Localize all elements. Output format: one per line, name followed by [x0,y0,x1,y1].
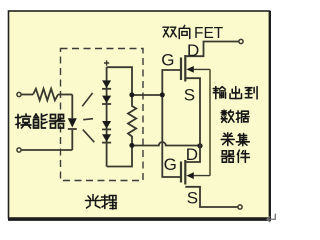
photodiode PD2 [102,96,111,104]
svg-text:D: D [187,41,199,60]
label 光耦 char 光 [86,195,101,209]
terminal input top [17,92,21,96]
label 双向 char 向 [179,25,190,38]
transistor Q1 gate bar [180,58,182,81]
transistor Q1 channel bar [184,55,186,82]
resistor R1 (series input) [33,89,58,101]
terminal output top [239,39,243,43]
node junction: resistor top [129,92,134,97]
label 输出到 char 到 [245,87,257,99]
photodiode PD1 [102,80,111,88]
light ray 3 [83,130,95,143]
label 换能器 char 能 [34,114,48,128]
wire Q1 body [194,68,210,70]
transistor Q2 gate bar [180,162,182,183]
svg-text:FET: FET [194,25,224,42]
resistor R2 (gate bleed) [128,95,136,146]
node junction: common source/drain [197,143,202,148]
label 换能器 char 换 [16,114,32,128]
transistor Q2 channel bar [184,160,186,185]
border accent right [269,11,271,220]
wire gate bus [162,70,181,177]
svg-text:G: G [164,155,177,174]
optocoupler dashed box U1 [61,49,144,181]
label 数据 char 据 [236,111,249,122]
svg-text:S: S [187,189,198,208]
label 器件 char 件 [237,150,249,162]
panel background [9,11,270,218]
terminal input bottom [17,148,21,152]
wire [58,94,72,96]
label 换能器 char 器 [50,115,65,129]
plus polarity mark [104,60,109,65]
photodiode PD3 [102,121,111,129]
wire Q2 source [185,187,238,207]
light ray 1 [82,93,92,106]
wire body bus [209,69,211,175]
transistor Q1 body arrow [186,66,193,73]
label 数据 char 数 [221,110,234,122]
photodiode stack wire [106,67,108,166]
node junction: gate bus tap [160,92,165,97]
node junction: resistor bottom [129,143,134,148]
svg-text:S: S [184,86,195,105]
wire Q1 drain [185,42,239,57]
transistor Q2 body arrow [186,172,193,179]
label 光耦 char 耦 [102,195,117,209]
wire LED anode leg [71,95,73,119]
svg-text:D: D [186,145,198,164]
svg-text:G: G [161,51,174,70]
label 输出到 char 输 [213,87,225,99]
photodiode PD4 [102,134,111,142]
label 采集 char 集 [236,133,249,145]
wire Q1 source [185,78,200,145]
border accent bottom [8,218,271,221]
label 采集 char 采 [221,133,234,146]
light ray 2 [83,119,93,120]
wire source node with hop [132,142,200,146]
terminal output bottom [238,205,242,209]
label 双向 char 双 [163,27,176,37]
label 输出到 char 出 [230,87,241,99]
wire Q2 body [194,175,210,177]
wire bottom return [22,149,73,151]
wire gate feed [132,94,162,96]
LED D1 (emitter) [68,118,77,127]
label 器件 char 器 [221,151,234,162]
wire Q2 drain [185,146,200,163]
wire stack bottom link [107,146,132,167]
paragraph return mark [267,214,275,222]
wire [22,94,34,96]
wire stack top link [107,67,132,95]
wire LED cathode leg [71,130,73,150]
